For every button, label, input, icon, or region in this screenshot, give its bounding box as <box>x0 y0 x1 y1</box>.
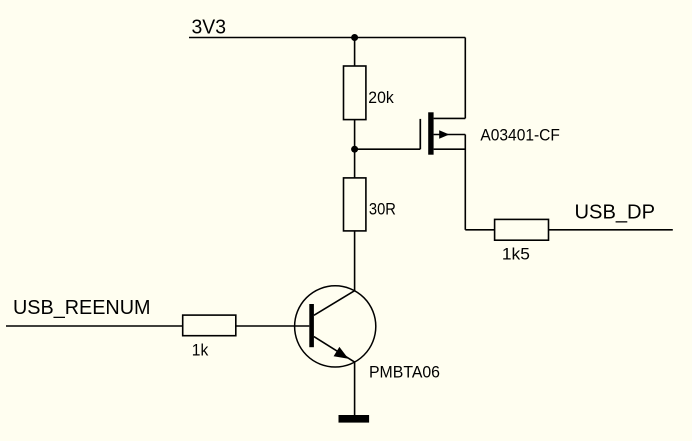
pin source stub <box>434 148 466 150</box>
resistor 1k <box>183 315 236 336</box>
transistor Q-PMBTA06 emitter arrow <box>334 347 349 359</box>
ground <box>339 415 370 423</box>
pin body arrow <box>439 130 449 138</box>
svg-text:1k5: 1k5 <box>502 244 530 263</box>
wire gate node to R-30R <box>354 149 356 178</box>
svg-text:1k: 1k <box>192 341 209 360</box>
wire R-1k5 to USB_DP <box>549 229 673 231</box>
transistor Q-PMBTA06 emitter diagonal <box>314 337 355 363</box>
pin drain stub <box>434 117 466 119</box>
svg-text:A03401-CF: A03401-CF <box>480 126 560 145</box>
svg-text:20k: 20k <box>368 88 394 107</box>
transistor Q-PMBTA06 base bar <box>309 304 314 347</box>
svg-text:PMBTA06: PMBTA06 <box>369 362 440 381</box>
transistor Q-A03401 pmos channel bar <box>428 112 433 154</box>
pin body stub <box>434 134 466 136</box>
transistor Q-PMBTA06 collector diagonal <box>314 291 355 316</box>
junction top node <box>351 34 358 41</box>
wire gate node to gate <box>355 148 421 150</box>
resistor 1k5 <box>495 219 549 240</box>
resistor 20k <box>344 66 366 120</box>
wire source down <box>464 135 466 230</box>
svg-text:3V3: 3V3 <box>192 17 227 39</box>
svg-text:30R: 30R <box>369 200 396 219</box>
svg-text:USB_DP: USB_DP <box>575 201 656 223</box>
wire R-20k to gate node <box>354 120 356 150</box>
resistor 30R <box>344 178 366 231</box>
transistor Q-PMBTA06 circle <box>295 286 376 367</box>
wire 3V3 rail <box>189 37 465 39</box>
junction gate node <box>351 146 358 153</box>
wire USB_REENUM to R-1k <box>6 325 183 327</box>
transistor Q-A03401 pmos gate line <box>419 119 421 149</box>
wire emitter down <box>354 362 356 415</box>
wire R-1k to base <box>236 325 309 327</box>
wire to R-1k5 <box>465 229 494 231</box>
wire R-30R to collector <box>354 231 356 291</box>
wire drain riser <box>464 38 466 119</box>
svg-text:USB_REENUM: USB_REENUM <box>13 297 151 319</box>
wire 3V3 to R-20k <box>354 38 356 67</box>
